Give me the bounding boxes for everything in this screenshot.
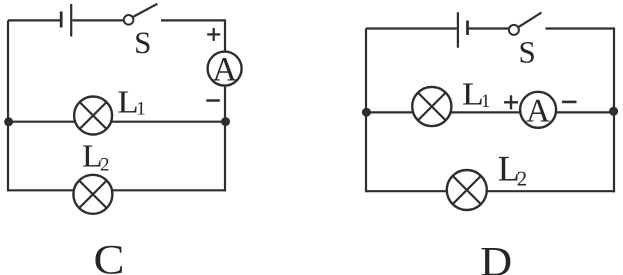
label + (ammeter C positive terminal)	[207, 28, 220, 41]
wire: C right vertical, corner down to ammeter	[224, 20, 226, 51]
wire: C left vertical	[7, 20, 9, 191]
svg-text:1: 1	[481, 91, 491, 112]
switch S (D): pivot circle	[509, 25, 519, 35]
svg-text:1: 1	[136, 99, 146, 120]
ammeter A (C): circle	[208, 52, 242, 86]
battery cell (C): long positive plate	[70, 4, 72, 37]
wire: C switch to top-right corner	[161, 19, 226, 21]
lamp L1 (D): cross	[418, 93, 446, 121]
svg-text:2: 2	[517, 167, 528, 191]
wire: C bottom with L2	[8, 189, 226, 191]
node: C left junction dot	[4, 117, 13, 126]
lamp L2 (C): cross	[79, 181, 107, 209]
switch S (C): pivot circle	[124, 15, 134, 25]
wire: D middle branch with L1 and ammeter	[366, 111, 614, 113]
wire: C right vertical, ammeter to bottom-right corner	[224, 86, 226, 192]
battery cell (D): short negative plate	[466, 21, 469, 36]
switch S (D): open lever arm	[518, 13, 541, 28]
label - (ammeter D negative terminal)	[562, 101, 577, 104]
node: D right junction dot	[609, 107, 618, 116]
battery cell (D): long positive plate	[457, 12, 459, 47]
svg-text:C: C	[94, 238, 125, 275]
wire: C top-left segment	[8, 19, 60, 21]
lamp L1 (C): cross	[80, 102, 107, 129]
wire: D bottom with L2	[366, 190, 615, 192]
svg-text:2: 2	[100, 155, 110, 176]
lamp L1 (D): circle	[412, 87, 451, 126]
wire: D top-left segment	[366, 27, 457, 29]
wire: C battery to switch	[72, 19, 123, 21]
svg-text:S: S	[518, 35, 535, 70]
battery cell (C): short negative plate	[60, 12, 63, 28]
lamp L1 (C): circle	[74, 97, 112, 135]
wire: D battery to switch	[469, 27, 509, 29]
svg-text:D: D	[480, 240, 512, 275]
lamp L2 (D): cross	[453, 176, 481, 204]
svg-text:A: A	[212, 52, 237, 89]
node: D left junction dot	[362, 108, 371, 117]
wire: C middle branch with L1	[8, 121, 225, 123]
ammeter A (D): circle	[520, 92, 556, 128]
svg-text:A: A	[526, 94, 550, 130]
wire: D switch to top-right corner	[546, 27, 616, 29]
node: C right junction dot	[221, 117, 230, 126]
wire: D right vertical	[613, 29, 615, 193]
lamp L2 (C): circle	[73, 175, 112, 214]
label - (ammeter C negative terminal)	[206, 99, 220, 102]
label + (ammeter D positive terminal)	[504, 95, 518, 109]
svg-text:S: S	[134, 25, 151, 60]
lamp L2 (D): circle	[447, 170, 487, 210]
switch S (C): open lever arm	[133, 4, 158, 17]
wire: D left vertical	[365, 29, 367, 193]
